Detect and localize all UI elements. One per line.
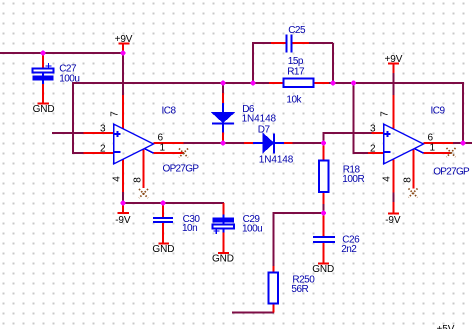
svg-text:2: 2 — [370, 144, 376, 155]
resistor R250 — [269, 266, 316, 313]
svg-text:IC8: IC8 — [162, 106, 177, 117]
svg-text:100R: 100R — [342, 174, 364, 185]
capacitor C25 — [271, 25, 309, 67]
wire IC9 pin4 segment — [393, 193, 395, 203]
wire IC9 pin7 segment — [393, 72, 395, 95]
svg-text:GND: GND — [33, 104, 55, 115]
svg-text:3: 3 — [100, 124, 106, 135]
ground under C26 — [312, 264, 334, 275]
ground under C27 — [33, 104, 55, 115]
wire R18 bottom gap — [323, 204, 325, 213]
wire left branch vertical to IC8 pin 2 — [73, 82, 84, 153]
wire C26 node horizontal — [274, 212, 325, 214]
svg-text:1: 1 — [160, 143, 166, 154]
no-connect X on IC9 pin 1 — [447, 148, 456, 157]
no-connect X on IC8 pin 1 — [179, 149, 188, 158]
svg-text:D7: D7 — [258, 124, 271, 135]
svg-text:100u: 100u — [242, 223, 262, 234]
svg-text:8: 8 — [403, 177, 414, 183]
svg-text:7: 7 — [110, 111, 121, 117]
op-amp IC9 — [368, 95, 470, 189]
capacitor C29 — [213, 203, 263, 253]
svg-text:GND: GND — [312, 264, 334, 275]
resistor R17 — [269, 66, 329, 105]
no-connect X on IC8 pin 8 — [139, 189, 148, 198]
diode D6 — [212, 93, 277, 143]
svg-text:4: 4 — [382, 176, 393, 182]
op-amp IC8 — [84, 95, 200, 192]
junction node at IC8 pin4 — [121, 201, 126, 206]
wire IC8 pin4 to -9V junction — [122, 192, 124, 203]
wire input to IC8 pin 3 — [52, 132, 84, 134]
svg-text:OP27GP: OP27GP — [433, 167, 470, 178]
wire +9V down to IC8 pin 7 — [122, 53, 124, 95]
svg-text:2: 2 — [100, 144, 106, 155]
resistor R18 — [319, 143, 364, 204]
junction node at +9V left — [121, 51, 126, 56]
svg-text:4: 4 — [112, 176, 123, 182]
wire feedback rail y=83 — [73, 82, 463, 84]
diode D7 — [244, 124, 294, 165]
svg-text:10n: 10n — [182, 223, 197, 234]
wire R250 bottom to left — [232, 312, 274, 314]
svg-text:-9V: -9V — [115, 215, 131, 226]
capacitor C26 — [313, 213, 360, 263]
svg-text:OP27GP: OP27GP — [163, 164, 200, 175]
junction node at IC9 pin2 drop — [351, 81, 356, 86]
svg-text:-9V: -9V — [385, 215, 401, 226]
svg-text:+5V: +5V — [437, 324, 455, 329]
wire R18 node up to IC9 pin 3 — [324, 133, 373, 144]
svg-text:+9V: +9V — [385, 54, 403, 65]
svg-text:7: 7 — [380, 111, 391, 117]
svg-text:R17: R17 — [287, 66, 305, 77]
power +5V partial bottom — [437, 324, 455, 329]
svg-text:1N4148: 1N4148 — [242, 114, 277, 125]
junction node at C27 tap — [41, 51, 46, 56]
junction node at D6 top — [221, 81, 226, 86]
junction node at C26 tap — [321, 211, 326, 216]
power -9V under IC9 — [385, 159, 401, 226]
svg-text:GND: GND — [152, 244, 174, 255]
junction node at D6 bottom — [221, 141, 226, 146]
wire IC8 output to D7 — [183, 142, 244, 144]
power -9V under IC8 — [115, 203, 131, 226]
svg-text:8: 8 — [133, 177, 144, 183]
junction node at C25 left riser — [251, 81, 256, 86]
capacitor C27 — [33, 53, 80, 103]
svg-text:15p: 15p — [288, 56, 304, 67]
power +9V left — [115, 34, 133, 53]
svg-text:IC9: IC9 — [431, 106, 446, 117]
svg-text:56R: 56R — [291, 284, 308, 295]
wire C25 branch top loop — [253, 43, 333, 83]
wire IC9 output to right edge — [453, 142, 472, 144]
svg-text:1: 1 — [430, 143, 436, 154]
junction node at IC9 output — [461, 141, 466, 146]
no-connect X on IC9 pin 8 — [409, 189, 418, 198]
svg-text:1N4148: 1N4148 — [259, 154, 294, 165]
svg-text:2n2: 2n2 — [341, 244, 357, 255]
ground under C29 — [212, 254, 234, 265]
svg-text:3: 3 — [370, 124, 376, 135]
power +9V right — [385, 54, 403, 73]
wire top-left +9V rail — [0, 52, 123, 54]
wire down to R250 — [273, 212, 275, 266]
junction node at R18 top — [321, 141, 326, 146]
wire IC9 feedback vertical — [462, 82, 464, 143]
svg-text:100u: 100u — [59, 73, 79, 84]
junction node at C30 tap — [161, 201, 166, 206]
junction node at C25 right riser — [331, 81, 336, 86]
wire D7 to R18 node — [292, 142, 324, 144]
wire D6 top stub — [222, 83, 224, 93]
svg-text:GND: GND — [212, 254, 234, 265]
svg-text:C25: C25 — [288, 25, 306, 36]
wire -9V rail under IC8 — [123, 202, 224, 204]
svg-text:10k: 10k — [286, 94, 302, 105]
ground under C30 — [152, 244, 174, 255]
capacitor C30 — [153, 203, 200, 243]
svg-text:+9V: +9V — [115, 34, 133, 45]
wire y=83 node down to IC9 pin 2 — [354, 83, 369, 153]
